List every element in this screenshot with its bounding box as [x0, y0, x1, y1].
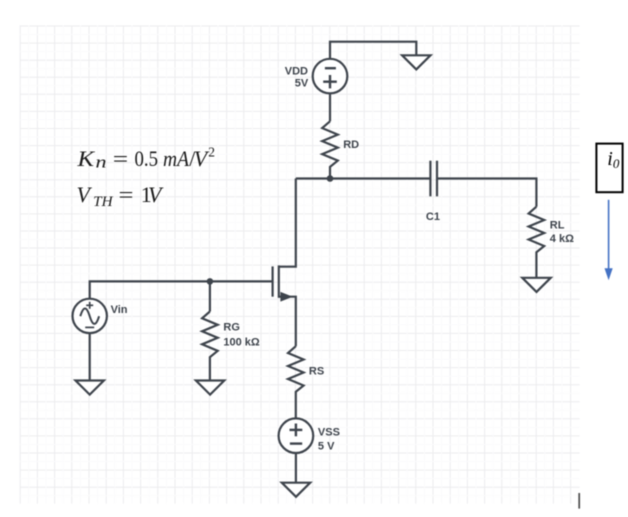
svg-text:V: V	[194, 146, 210, 171]
svg-text:RS: RS	[309, 366, 324, 378]
svg-text:V: V	[148, 182, 164, 207]
svg-text:Vin: Vin	[111, 304, 128, 316]
svg-text:RL: RL	[550, 219, 565, 231]
svg-text:2: 2	[208, 145, 215, 160]
svg-text:V: V	[77, 182, 93, 207]
svg-text:5V: 5V	[295, 78, 309, 90]
svg-text:RG: RG	[223, 322, 240, 334]
svg-text:5 V: 5 V	[318, 440, 335, 452]
svg-text:C1: C1	[426, 211, 440, 223]
svg-text:=: =	[119, 182, 134, 207]
svg-text:n: n	[96, 152, 107, 171]
svg-text:0.5: 0.5	[135, 146, 159, 171]
svg-text:100 kΩ: 100 kΩ	[223, 336, 260, 348]
svg-text:VSS: VSS	[318, 426, 340, 438]
svg-text:VDD: VDD	[285, 65, 308, 77]
svg-text:RD: RD	[343, 139, 359, 151]
svg-text:TH: TH	[93, 194, 114, 210]
svg-text:mA: mA	[163, 146, 189, 171]
svg-text:=: =	[113, 146, 128, 171]
svg-text:K: K	[76, 146, 95, 171]
svg-text:4 kΩ: 4 kΩ	[550, 233, 574, 245]
